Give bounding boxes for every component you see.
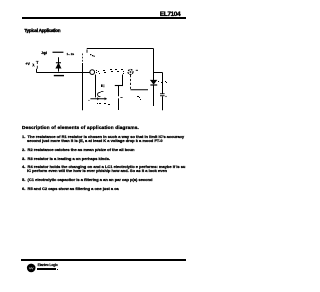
item 1 line 1 [22,135,184,139]
footer company name [38,264,58,267]
wire dashed branch upper [82,54,84,63]
diode D2 [151,80,157,84]
footer rule [21,259,186,261]
capacitor C1 top bar [115,85,123,87]
item 6 [22,187,119,191]
input connector pins [36,61,38,69]
wire dash-dot from P2 down [130,75,132,90]
capacitor C2 bottom lead [162,96,164,110]
item 4 line 2 [27,169,167,173]
capacitor C3 top plate [53,51,64,53]
capacitor C3 bottom plate [54,75,64,77]
wire dots right of P2 [136,69,138,71]
header rule [22,17,186,19]
capacitor C1 bottom lead [118,98,120,110]
pin circle P2 with dot [128,70,133,75]
node +V input terminal [33,64,35,67]
item 5 [22,178,153,182]
wire stub below rail start [86,50,88,53]
pin circle P1 [90,70,95,75]
wire right branch vertical A [153,49,155,81]
item 3 [22,157,110,161]
wire supply bus [37,72,90,74]
capacitor C1 plus tick [120,96,122,98]
label C3 value [41,52,47,55]
capacitor C1 lead from bus [122,75,124,86]
wire input down to bus [36,69,38,73]
curl of Q1 [101,91,104,93]
capacitor C1 stem [118,86,120,96]
item 2 [22,148,134,152]
wire top connecting A and B [154,72,163,74]
label dots between pins [96,69,124,74]
wire horizontal load branch [131,89,149,91]
label dots under arrow [97,103,110,105]
section title: Typical Application [24,29,60,34]
label R2 [101,84,104,87]
footer address bar [37,268,56,270]
header part number EL7104 [160,12,180,19]
capacitor C2 plates [160,93,165,95]
item 1 line 2 [27,139,163,143]
wire vertical branch through bus [82,63,84,110]
wire top rail [87,48,154,50]
description heading [22,126,139,131]
capacitor C2 top lead [162,73,164,94]
label dots under load wire [137,96,141,100]
item 4 line 1 [22,165,185,169]
diode D1 [58,57,60,71]
value label dots [90,54,91,55]
transistor Q1 stem [95,75,97,98]
label D1 value [67,53,74,56]
arrow line with junction dots [90,98,106,100]
label +V [25,63,30,67]
footer logo [26,263,37,273]
label dots right of D2 [158,81,167,83]
